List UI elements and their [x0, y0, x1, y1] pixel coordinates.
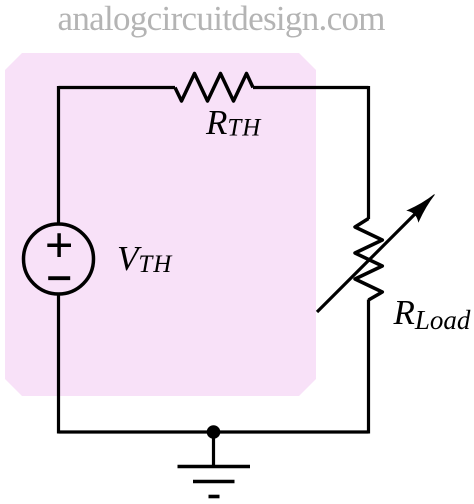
wire right vertical upper [367, 86, 370, 219]
wire left vertical upper [57, 86, 60, 225]
svg-text:analogcircuitdesign.com: analogcircuitdesign.com [58, 0, 386, 38]
V_TH plus sign [47, 233, 71, 257]
variable resistor arrow shaft [317, 208, 421, 312]
ground stub wire [212, 432, 215, 467]
V_TH minus sign [48, 276, 70, 280]
wire bottom [59, 430, 369, 433]
junction node dot [207, 425, 221, 439]
resistor R_TH [175, 74, 253, 102]
wire top right [253, 86, 369, 89]
pink highlight panel [5, 53, 316, 396]
svg-text:RLoad: RLoad [393, 293, 471, 335]
wire right vertical lower [367, 300, 370, 434]
variable resistor R_Load zigzag [355, 219, 382, 301]
wire left vertical lower [57, 294, 60, 434]
wire top (node between VTH and RTH to RLoad) [59, 86, 176, 89]
variable resistor arrowhead [408, 195, 435, 222]
ground symbol [178, 467, 251, 497]
voltage source V_TH circle [24, 224, 94, 294]
